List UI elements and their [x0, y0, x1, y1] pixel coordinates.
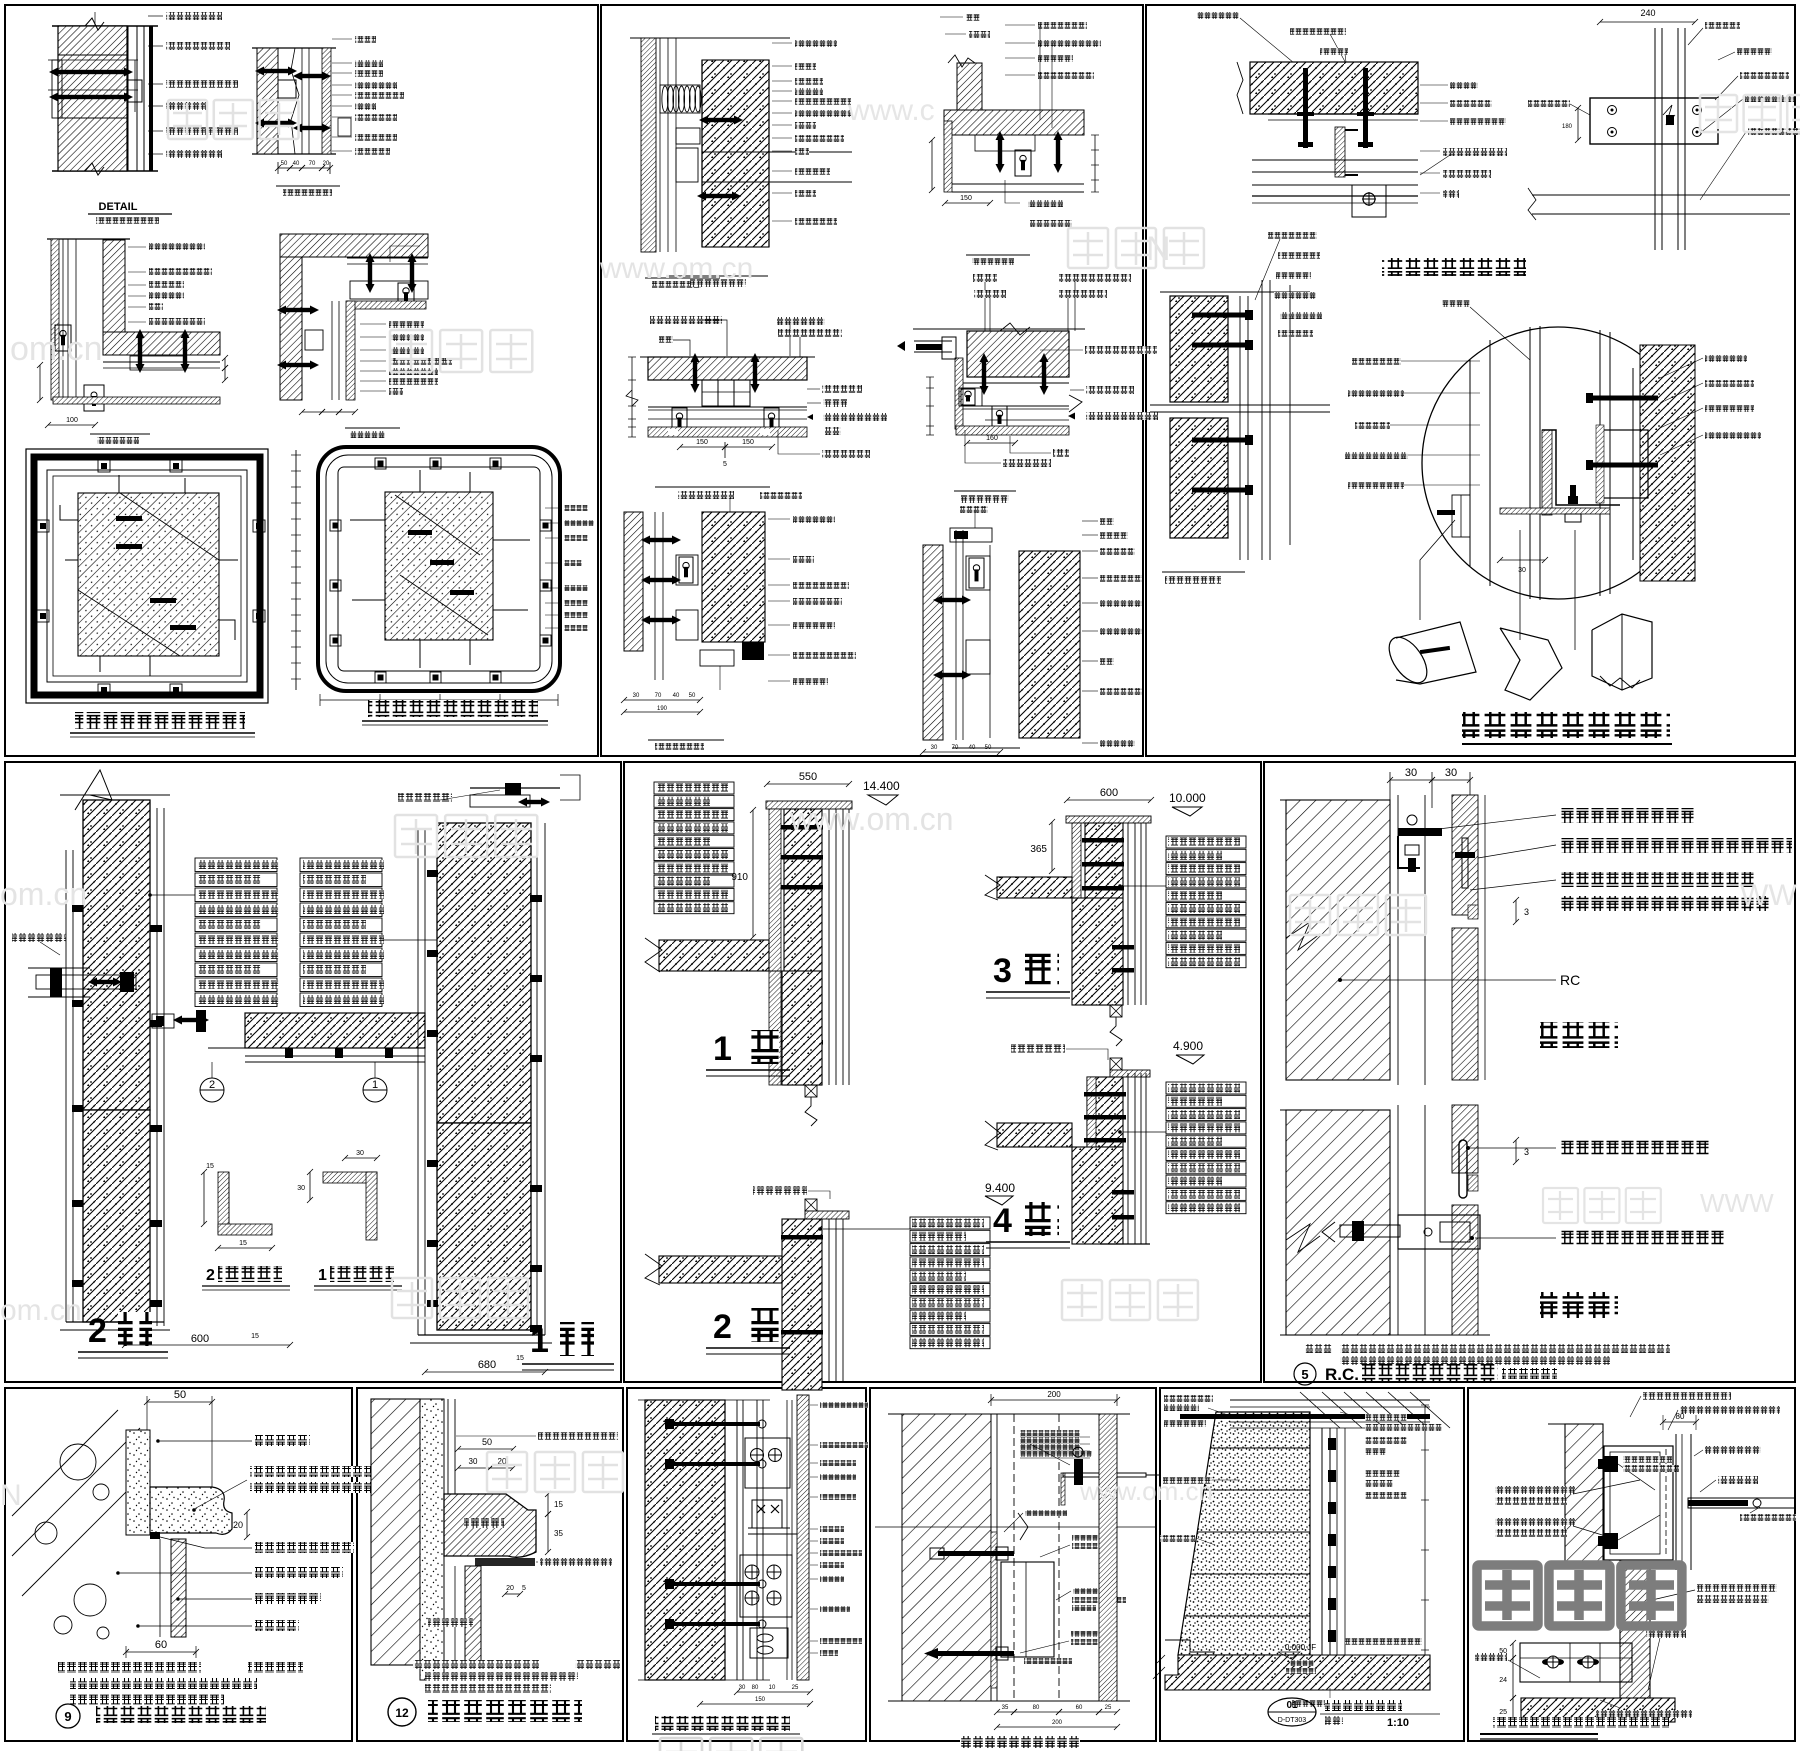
plain hatch wall [902, 1414, 991, 1701]
svg-text:365: 365 [1030, 844, 1047, 855]
stack 2 [910, 1217, 990, 1229]
subE left wall strip [624, 512, 643, 651]
svg-text:60: 60 [1076, 1705, 1083, 1711]
label stacks P4 [195, 858, 277, 872]
subD labels top [973, 274, 997, 282]
svg-text:25: 25 [1499, 1709, 1507, 1716]
title E [75, 712, 245, 729]
dim 3 lower [1513, 1137, 1519, 1165]
svg-text:N: N [1146, 230, 1171, 268]
svg-text:www.om.cn: www.om.cn [789, 801, 954, 837]
labels subB right [1005, 24, 1035, 26]
concrete L block C [103, 240, 125, 355]
title D [345, 427, 400, 429]
wall hatched column A [52, 25, 158, 27]
svg-text:30: 30 [1405, 767, 1417, 779]
central vertical stone slab hatched [1620, 1561, 1650, 1700]
top dim 200 [988, 1397, 1120, 1403]
subC title above [668, 275, 768, 277]
svg-text:0.000 JF: 0.000 JF [1285, 1643, 1316, 1652]
subB plate with bolts [1590, 98, 1718, 144]
vertical strips [736, 1400, 738, 1680]
labels right of circle [1705, 355, 1747, 362]
subB labels top-left [966, 14, 980, 21]
inside small label [1623, 1456, 1672, 1463]
svg-text:1:10: 1:10 [1387, 1717, 1409, 1729]
small label under plate [1024, 1658, 1072, 1664]
labels subA [772, 42, 792, 44]
hatched wall strip upper-left [1565, 1424, 1603, 1562]
subC bottom dim [677, 444, 728, 450]
window top right [398, 793, 452, 802]
title B [276, 185, 340, 187]
svg-text:35: 35 [1002, 1705, 1009, 1711]
svg-text:30: 30 [1518, 567, 1526, 574]
svg-text:150: 150 [696, 439, 708, 446]
dashed lines [1013, 1414, 1015, 1701]
svg-text:om.cn: om.cn [0, 876, 87, 912]
bolt 2 anchor [938, 1651, 1014, 1656]
600 dim 3pou [1064, 797, 1154, 803]
subF dims bottom [920, 749, 1003, 755]
dims inside circle [1497, 557, 1548, 563]
subE dims bottom [621, 697, 703, 703]
svg-text:N: N [0, 1479, 22, 1512]
subF left wall strip [923, 545, 943, 740]
subB labels [1705, 22, 1740, 29]
inner floor label [1345, 1638, 1422, 1645]
break symbols [85, 18, 104, 30]
subF middle strips [955, 530, 957, 740]
natural stone cap block [150, 1487, 232, 1534]
bottom dim F [320, 699, 558, 701]
dims C [37, 362, 43, 403]
svg-text:200: 200 [1052, 1720, 1063, 1726]
top door head [1180, 1414, 1430, 1419]
fitting B [278, 80, 296, 98]
leader D top [390, 246, 420, 262]
title C [90, 433, 150, 435]
50 dim [144, 1399, 215, 1405]
svg-text:1: 1 [372, 1079, 378, 1091]
svg-text:910: 910 [731, 872, 748, 883]
nai hou label [1646, 1630, 1686, 1638]
svg-text:15: 15 [239, 1240, 247, 1247]
title P8 [388, 1698, 416, 1726]
beam 2pou [659, 1256, 782, 1283]
dim line B [275, 165, 293, 171]
svg-text:30: 30 [739, 1685, 746, 1691]
title P10 [960, 1736, 1080, 1748]
label top [538, 1432, 618, 1440]
subC labels top [650, 316, 722, 324]
insulation coil [662, 86, 668, 112]
svg-text:om.cn: om.cn [0, 1294, 82, 1327]
RC wall upper [1280, 799, 1390, 801]
svg-text:2: 2 [209, 1079, 215, 1091]
subE bottom bracket [742, 642, 764, 660]
subD stone band [956, 426, 1069, 435]
bottom dims [994, 1709, 1017, 1715]
stone strip right [1099, 1414, 1117, 1701]
base concrete [1521, 1698, 1675, 1722]
svg-text:80: 80 [1033, 1705, 1040, 1711]
jiaqiang label [428, 1618, 473, 1627]
svg-text:www.om.cn: www.om.cn [599, 252, 753, 285]
leaders from stacks [150, 894, 195, 896]
RC wall lower [1286, 1110, 1390, 1335]
subE concrete column [702, 512, 765, 642]
title row [1294, 1363, 1316, 1385]
right column stone strips [424, 830, 426, 1335]
subC bolt boxes [672, 408, 687, 433]
corner detail D [280, 234, 428, 257]
anchors D [277, 306, 319, 315]
svg-text:10.000: 10.000 [1169, 791, 1206, 805]
svg-text:14.400: 14.400 [863, 779, 900, 793]
svg-text:40: 40 [293, 161, 300, 167]
subC stone band [648, 427, 807, 437]
subA C-channel [1340, 130, 1358, 175]
svg-text:20: 20 [506, 1585, 514, 1592]
svg-text:20: 20 [233, 1520, 243, 1530]
horizontal glass bar [1688, 1498, 1795, 1508]
joint top 4pou [1110, 1058, 1122, 1070]
dims left lower [1510, 1640, 1516, 1661]
svg-text:4.900: 4.900 [1173, 1039, 1203, 1053]
svg-text:2: 2 [713, 1308, 732, 1346]
svg-text:3: 3 [1524, 1147, 1529, 1157]
svg-text:160: 160 [986, 435, 998, 442]
subC labels right [822, 385, 862, 393]
svg-text:40: 40 [673, 693, 680, 699]
svg-text:30: 30 [469, 1457, 478, 1466]
notes bottom [1305, 1344, 1332, 1353]
svg-text:3: 3 [1524, 907, 1529, 917]
T-fitting in joint [1462, 838, 1468, 888]
labels C [128, 246, 146, 248]
subF top assembly [950, 528, 992, 542]
subA labels top [1197, 12, 1239, 19]
subF brackets [966, 556, 990, 590]
dims 600 and 680 [122, 1342, 293, 1348]
winged bolts [1547, 1656, 1559, 1668]
svg-text:80: 80 [752, 1685, 759, 1691]
mullion strips [1397, 795, 1399, 1085]
labels chemical anchor [1072, 1535, 1102, 1541]
svg-text:600: 600 [1100, 787, 1118, 799]
top text block [1020, 1430, 1080, 1436]
mid plate with 4 bolts [740, 1555, 792, 1617]
title P12 [1493, 1717, 1669, 1728]
svg-text:180: 180 [1562, 124, 1573, 130]
title subB [966, 254, 1030, 256]
svg-text:WW: WW [1740, 879, 1797, 912]
brackets on left column [72, 905, 83, 912]
subD top boundary [913, 328, 1085, 330]
svg-text:1: 1 [713, 1030, 732, 1068]
horizontal bracket lower [1398, 1215, 1480, 1249]
dims subB left/bottom [929, 137, 935, 193]
marble slab [171, 1539, 186, 1637]
labels P11 left [1164, 1395, 1213, 1402]
beam 4pou [997, 1123, 1072, 1147]
concrete wall left [371, 1399, 420, 1665]
shi cai tuo jian label [1475, 1653, 1507, 1661]
circle detail boundary [1422, 327, 1694, 599]
labels D [360, 323, 386, 325]
stack 3 [1166, 836, 1246, 848]
steps left [1165, 1640, 1215, 1652]
svg-text:70: 70 [655, 693, 662, 699]
subD dims left [929, 377, 931, 435]
window joint top 2pou [805, 1199, 817, 1211]
svg-text:5: 5 [522, 1585, 526, 1592]
title subA [645, 277, 720, 279]
910 dim [750, 807, 756, 940]
svg-text:30: 30 [1445, 767, 1457, 779]
svg-text:15: 15 [251, 1333, 259, 1340]
subA T fitting [1352, 185, 1386, 217]
column 3pou upper [1072, 823, 1081, 1005]
svg-text:25: 25 [792, 1685, 799, 1691]
svg-text:5: 5 [723, 461, 727, 468]
right small labels F [545, 507, 562, 509]
subA labels right [1420, 84, 1448, 86]
labels left of circle [1352, 358, 1401, 365]
bolt 1 [938, 1551, 1014, 1556]
chord vertical lines [1469, 360, 1471, 566]
beam 3pou [997, 877, 1072, 898]
window joint left of beam [152, 1014, 174, 1028]
svg-text:25: 25 [1105, 1705, 1112, 1711]
stone panel strips upper [1452, 795, 1478, 915]
stone slab under beam [103, 361, 220, 363]
plate and bolts right [1600, 430, 1648, 498]
svg-text:200: 200 [1047, 1390, 1061, 1399]
title P7 [56, 1704, 80, 1728]
plates with bolts [745, 1438, 790, 1488]
title subF [952, 747, 1020, 749]
subE top label [760, 492, 802, 499]
subC concrete slab [648, 357, 807, 380]
dims D [299, 409, 325, 415]
svg-text:12: 12 [395, 1706, 409, 1720]
subA concrete beam [1250, 62, 1418, 114]
svg-text:5: 5 [1301, 1367, 1308, 1382]
hex bolts left of box [1598, 1456, 1618, 1472]
big block 4pou [1072, 1147, 1123, 1244]
subD left vertical hatch strip [955, 358, 963, 429]
subB horizontal concrete band [944, 110, 1084, 135]
svg-text:50: 50 [281, 161, 288, 167]
beam to right [702, 152, 852, 182]
light gray watermarks [168, 100, 207, 139]
240x180x8 label [1025, 1510, 1067, 1516]
svg-text:30: 30 [633, 693, 640, 699]
circled section marks [200, 1078, 224, 1102]
leaders subB [1039, 25, 1041, 120]
anchors on column [781, 825, 823, 830]
labels P11 right [1365, 1414, 1407, 1421]
subD big hatched block [967, 331, 1069, 377]
silicone joint dark [475, 1558, 535, 1566]
svg-text:150: 150 [742, 439, 754, 446]
subC concrete wall [1160, 291, 1310, 293]
40*40*4 labels left [1495, 1486, 1575, 1494]
subD stone course + anchors [963, 382, 1069, 384]
joint below 3pou [1110, 1005, 1122, 1017]
svg-text:www.c: www.c [847, 94, 935, 127]
corner detail C [47, 238, 130, 240]
subD bottom dim [964, 440, 1018, 446]
365 dim [1049, 819, 1055, 874]
svg-text:15: 15 [206, 1163, 214, 1170]
stack 1 [654, 782, 734, 794]
svg-text:600: 600 [191, 1333, 209, 1345]
subC bolts [1192, 313, 1250, 318]
right mullion strips [1675, 1434, 1677, 1570]
boundary lines [888, 1413, 1130, 1415]
svg-text:550: 550 [799, 771, 817, 783]
column below beam [782, 971, 822, 1085]
C80 labels [1073, 1588, 1109, 1594]
concrete wall [645, 1400, 725, 1680]
svg-text:2: 2 [206, 1267, 215, 1284]
big block 3pou [1072, 898, 1123, 1005]
top labels [1643, 1392, 1731, 1400]
center hatched core E [78, 493, 219, 656]
title P9 [655, 1716, 790, 1731]
svg-text:680: 680 [478, 1359, 496, 1371]
legs below circle [1420, 520, 1455, 620]
window joint bottom [805, 1085, 817, 1097]
small fitting [128, 80, 142, 102]
stone slabs D [347, 257, 428, 259]
anchor bolts A [49, 68, 133, 77]
counter assembly lower [1520, 1643, 1632, 1682]
title 骨架连接锚固大样 [1382, 258, 1526, 276]
25 phi pin [1459, 1140, 1467, 1198]
svg-text:30: 30 [931, 745, 938, 751]
T-bracket center [1500, 508, 1610, 514]
big dark gray watermark bottom right [1477, 1565, 1538, 1626]
left dim strip F [295, 450, 297, 690]
subD title below [954, 490, 1016, 492]
anchors around F [375, 458, 386, 469]
svg-text:70: 70 [309, 161, 316, 167]
M12 label bottom [1292, 1700, 1362, 1707]
svg-text:DETAIL: DETAIL [99, 201, 138, 213]
angle details: 2 stone outer corner [218, 1172, 229, 1234]
550 dim [764, 781, 852, 787]
anchors B [255, 67, 297, 76]
subC dims left [631, 357, 633, 437]
beam hangers [285, 1048, 293, 1058]
subC title below [655, 486, 770, 488]
vertical stone strip D [346, 301, 355, 400]
stone slab strip bottom [952, 183, 1084, 185]
subC title small [1162, 571, 1245, 573]
svg-text:15: 15 [554, 1500, 563, 1509]
subF labels right [1082, 520, 1098, 522]
20 dim right of cap [244, 1509, 250, 1540]
subD window assembly left [914, 340, 952, 342]
60 dim bottom [123, 1649, 199, 1655]
decorative break circles [60, 1444, 96, 1480]
subE anchors left [641, 536, 681, 545]
bracket at bottom left C [55, 325, 71, 351]
column 4pou [1087, 1077, 1123, 1147]
dims P9 [734, 1689, 813, 1695]
subD rails [963, 405, 1069, 407]
subE brackets [676, 555, 698, 585]
subD labels right [1085, 346, 1157, 354]
labels B [332, 38, 352, 40]
notes P8 [413, 1660, 539, 1669]
svg-text:1: 1 [318, 1267, 327, 1284]
brackets subA [699, 116, 743, 125]
subE labels right [768, 518, 790, 520]
subA wall strips [630, 37, 790, 39]
svg-text:4: 4 [993, 1202, 1012, 1240]
title li pou mian [1540, 1022, 1618, 1048]
labels P7 [255, 1435, 310, 1446]
bottom closure [66, 1321, 164, 1323]
svg-text:20: 20 [323, 161, 330, 167]
svg-text:9.400: 9.400 [985, 1181, 1015, 1195]
isometric cylinder [1382, 631, 1435, 690]
angle details: 1 stone inner corner [323, 1172, 377, 1183]
svg-text:60: 60 [155, 1639, 167, 1651]
concrete column subA [702, 60, 769, 247]
left column stone strips outside [72, 850, 74, 1322]
svg-text:50: 50 [689, 693, 696, 699]
svg-text:1: 1 [530, 1322, 549, 1360]
stone strip B [322, 48, 331, 154]
lower small plate [750, 1628, 788, 1658]
title block P11 [1268, 1698, 1316, 1726]
silicone joint [150, 1532, 160, 1539]
panel borders [5, 5, 598, 756]
center hatched core F [385, 492, 493, 640]
right dim line [1424, 1405, 1426, 1690]
L-plate hatched [1542, 430, 1552, 515]
labels P9 right [810, 1404, 818, 1406]
svg-text:190: 190 [657, 706, 668, 712]
title subE [648, 739, 724, 741]
dims subB right [1094, 135, 1096, 192]
big plate [1001, 1562, 1054, 1657]
stack 4 [1166, 1082, 1246, 1094]
svg-text:9: 9 [64, 1709, 71, 1724]
title 墙面竖向节点图B [1462, 712, 1670, 738]
strips lower [1397, 1105, 1399, 1335]
middle break [875, 1526, 1155, 1528]
subC anchors vertical [691, 353, 700, 393]
floor bottom [1165, 1655, 1430, 1690]
stone strip right [127, 26, 129, 171]
svg-text:10: 10 [769, 1685, 776, 1691]
label C80 top [1442, 300, 1470, 307]
subC rails [648, 406, 807, 408]
labels right [1705, 1446, 1761, 1454]
svg-text:01: 01 [1286, 1700, 1298, 1711]
svg-text:R.C.: R.C. [1325, 1365, 1359, 1384]
svg-text:50: 50 [482, 1437, 492, 1447]
labels right of slab [1697, 1584, 1777, 1592]
inner tie lines E [78, 590, 180, 656]
